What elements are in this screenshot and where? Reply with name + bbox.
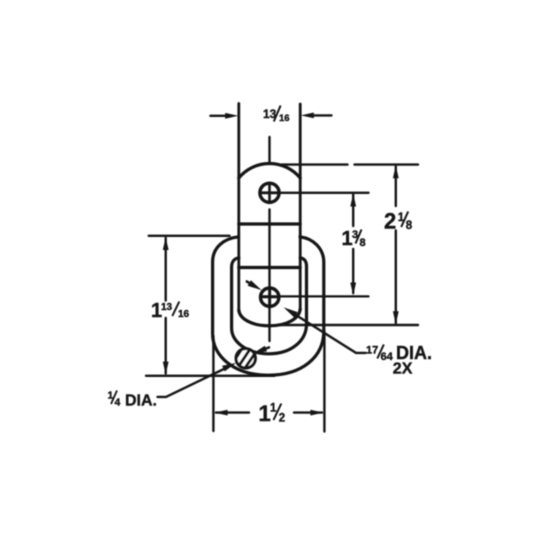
1 3/8 dimension line bbox=[352, 195, 354, 227]
top hole bbox=[260, 183, 279, 202]
13/16 left dimension line bbox=[210, 115, 226, 117]
second arrowhead upper-right of ring section bbox=[263, 347, 270, 350]
svg-text:16: 16 bbox=[178, 309, 190, 320]
ring wire section circle (white fill over ring lines) bbox=[236, 349, 255, 368]
strap right edge + 13/16 right extension line bbox=[299, 104, 302, 310]
central hole bbox=[261, 288, 279, 306]
strap rounded top arc bbox=[239, 164, 300, 178]
svg-text:2: 2 bbox=[384, 209, 396, 234]
strap left edge + 13/16 left extension line bbox=[237, 104, 240, 312]
2 1/8 bottom arrowhead bbox=[393, 311, 399, 324]
1/4 DIA leader arrowhead at ring section bbox=[222, 363, 236, 372]
svg-text:13: 13 bbox=[161, 302, 173, 313]
1 1/2 left extension line bbox=[212, 336, 214, 431]
2 1/8 bottom extension line bbox=[278, 324, 418, 326]
1 1/2 right dimension line bbox=[294, 411, 322, 413]
1 13/16 bottom extension line (baseline) bbox=[146, 375, 275, 377]
1 13/16 dimension line bbox=[164, 238, 166, 301]
1 3/8 bottom arrowhead bbox=[350, 283, 356, 296]
svg-text:8: 8 bbox=[360, 237, 366, 249]
top hole center mark vertical bbox=[268, 184, 271, 202]
top hole centerline horizontal + 1 3/8 top extension bbox=[260, 192, 369, 194]
bracket bottom rounded end bbox=[239, 309, 300, 326]
1 13/16 bottom arrowhead bbox=[163, 362, 169, 375]
svg-text:4: 4 bbox=[115, 397, 121, 409]
1 3/8 top arrowhead bbox=[350, 194, 356, 207]
svg-text:17: 17 bbox=[366, 345, 378, 357]
13/16 right arrowhead bbox=[301, 113, 314, 119]
17/64 leader line bbox=[290, 311, 366, 353]
1 13/16 top arrowhead bbox=[163, 237, 169, 250]
dimension text 1 3/8 bbox=[342, 228, 366, 250]
svg-text:2: 2 bbox=[279, 413, 285, 425]
svg-text:64: 64 bbox=[381, 351, 394, 363]
second arrowhead upper-left of central hole bbox=[247, 282, 252, 285]
callout text 1/4 DIA. bbox=[108, 390, 158, 410]
svg-text:2X: 2X bbox=[393, 361, 413, 378]
callout text 17/64 DIA. 2X bbox=[366, 343, 432, 378]
dimension text 1 13/16 bbox=[151, 300, 190, 322]
strap lower edge line bbox=[239, 222, 300, 225]
svg-text:8: 8 bbox=[406, 220, 413, 232]
svg-text:1: 1 bbox=[259, 401, 271, 426]
1/4 DIA leader line bbox=[158, 368, 227, 397]
dimension text 13/16 bbox=[263, 106, 290, 124]
1 1/2 left arrowhead bbox=[215, 410, 228, 416]
2 1/8 top arrowhead bbox=[393, 165, 399, 178]
2 1/8 dimension line bbox=[395, 167, 397, 207]
1 1/2 right extension line bbox=[323, 331, 325, 432]
bracket top edge line bbox=[239, 266, 300, 269]
top hole center mark horizontal bar bbox=[261, 191, 279, 194]
2 1/8 top extension line bbox=[282, 163, 348, 165]
vertical centerline upper segment bbox=[268, 137, 270, 162]
1 13/16 top extension line bbox=[149, 235, 230, 237]
central hole center mark cross bbox=[262, 295, 279, 298]
13/16 left arrowhead bbox=[225, 113, 238, 119]
1 1/2 right arrowhead bbox=[310, 410, 323, 416]
D-ring inner outline bbox=[232, 258, 307, 354]
svg-text:DIA.: DIA. bbox=[125, 393, 157, 410]
dimension text 1 1/2 bbox=[259, 401, 286, 426]
dimension text 2 1/8 bbox=[384, 209, 413, 234]
section hatch lines bbox=[234, 347, 255, 371]
central hole centerline horizontal + 1 3/8 bottom extension bbox=[263, 295, 369, 297]
vertical centerline lower segment bbox=[268, 210, 270, 342]
1 1/2 left dimension line bbox=[216, 411, 249, 413]
13/16 right dimension line bbox=[313, 114, 332, 116]
svg-text:16: 16 bbox=[279, 113, 290, 124]
svg-text:1: 1 bbox=[342, 228, 353, 250]
17/64 leader arrowhead at central hole bbox=[284, 307, 298, 317]
D-ring outer outline bbox=[213, 237, 324, 375]
